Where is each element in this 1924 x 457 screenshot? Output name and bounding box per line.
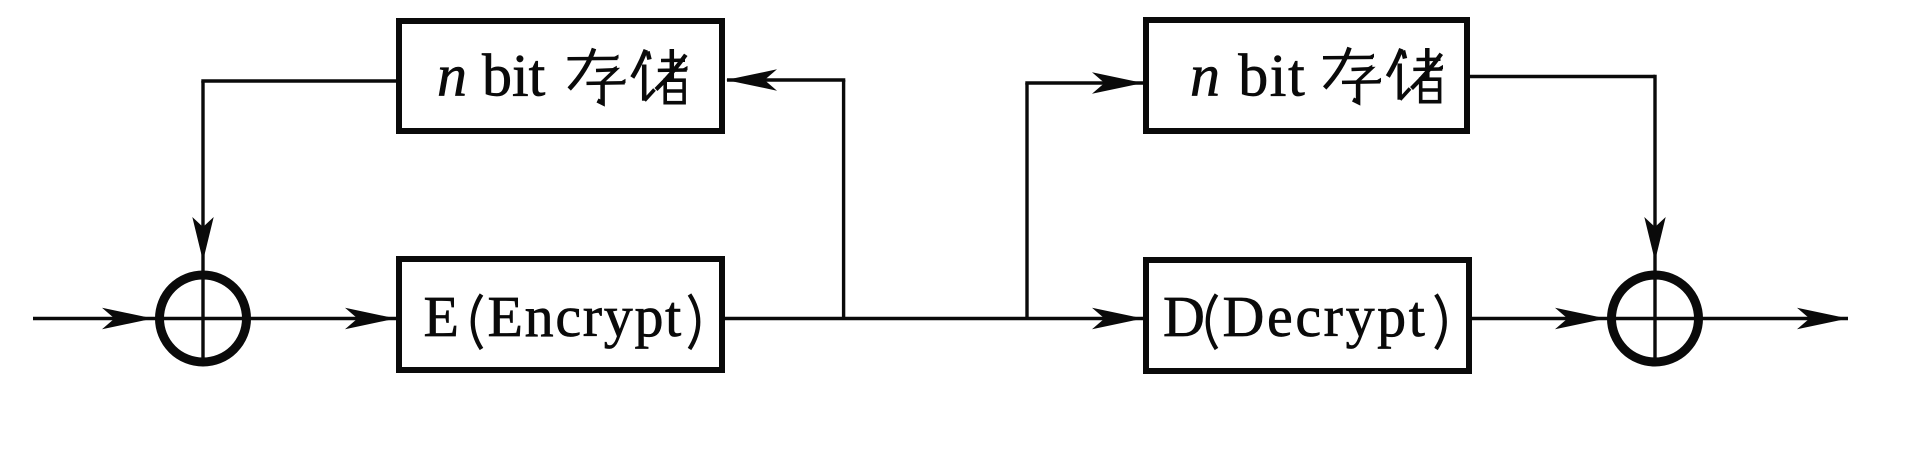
wire: horizontal into left side of n-bit storage 2	[1025, 81, 1143, 84]
box B2: E(Encrypt)	[399, 259, 722, 370]
vertical hook of 子	[598, 82, 603, 104]
XOR circle 2 (right)	[1612, 275, 1699, 362]
arrowhead into left XOR	[102, 308, 153, 329]
ti tick of 讠	[645, 90, 655, 101]
box B1: n bit storage (left)	[399, 21, 722, 131]
CJK glyph 储 (right)	[1388, 48, 1443, 102]
CJK glyph 存 (left)	[568, 49, 626, 104]
者: horizontal 1	[661, 58, 685, 62]
wire: D output through right XOR to final output	[1472, 317, 1848, 320]
者: 日 middle bar	[665, 89, 684, 93]
wire: feedback horizontal into right side of n-bit storage 1	[727, 78, 845, 81]
者: long pie	[656, 55, 686, 90]
wire: vertical from n-bit storage 1 down into left XOR, continues through circle	[201, 81, 204, 366]
arrowhead into right XOR	[1555, 308, 1606, 329]
者: 日 box	[665, 80, 684, 103]
wire: E output to D input	[725, 317, 1143, 320]
svg-text:D: D	[1163, 284, 1205, 349]
者: horizontal 2 (long)	[658, 68, 687, 72]
pie diagonal	[569, 49, 594, 90]
box B3: n bit storage (right)	[1146, 20, 1467, 131]
vertical of 亻	[642, 65, 647, 101]
svg-text:E: E	[424, 284, 459, 349]
fu: horizontal + bend of 子 top	[596, 70, 616, 83]
wire: plaintext input line into left XOR	[33, 317, 396, 320]
XOR circle 1 (left)	[160, 275, 247, 362]
label: E(Encrypt)	[424, 284, 699, 349]
svg-text:n bit: n bit	[437, 43, 546, 109]
box B4: D(Decrypt)	[1146, 260, 1469, 371]
arrowhead left into n-bit storage 1	[726, 69, 777, 90]
top horizontal	[568, 57, 618, 61]
left pie of 亻	[632, 50, 646, 78]
wire: vertical down into right XOR, continues through circle	[1653, 75, 1656, 366]
svg-text:Encrypt: Encrypt	[488, 284, 684, 349]
CJK glyph 存 (right)	[1323, 48, 1381, 103]
cross horizontal of 子	[587, 81, 625, 85]
svg-text:Decrypt: Decrypt	[1223, 284, 1428, 349]
arrowhead down into left XOR top	[192, 217, 213, 261]
CJK glyph 储 (left)	[632, 49, 687, 103]
wire: feedback vertical branch up from E output	[842, 80, 845, 319]
arrowhead down into right XOR top	[1644, 217, 1665, 261]
label: D(Decrypt)	[1163, 284, 1445, 349]
wire: n-bit storage 2 output right then down to right XOR	[1470, 75, 1655, 78]
wire: branch vertical up toward n-bit storage 2	[1025, 83, 1028, 319]
arrowhead right into n-bit storage 2	[1092, 72, 1143, 93]
svg-text:n bit: n bit	[1190, 43, 1306, 109]
arrowhead into E box	[345, 308, 396, 329]
者: top vertical	[670, 49, 675, 79]
arrowhead into D box	[1092, 308, 1143, 329]
dot of 讠	[648, 52, 650, 60]
arrowhead final output	[1797, 308, 1848, 329]
wire: horizontal from n-bit storage 1 left edge to vertical	[201, 79, 396, 82]
